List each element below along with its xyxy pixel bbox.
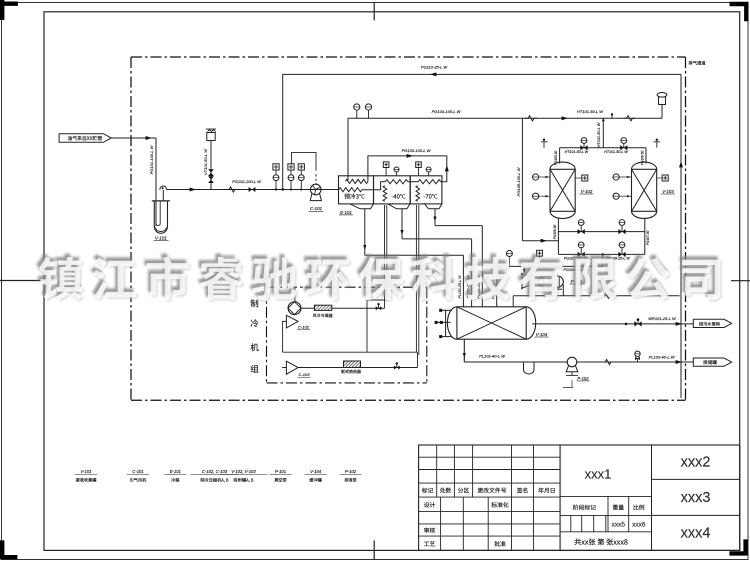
strainer pot: [524, 362, 535, 374]
svg-text:冷: 冷: [250, 318, 259, 330]
pipe PG105 drop from PG104: [521, 118, 523, 240]
instrument PI-1 on suction header: [275, 181, 277, 190]
watermark 镇江市睿驰环保科技有限公司: [38, 244, 750, 310]
svg-text:WR101-25-L W: WR101-25-L W: [648, 316, 677, 321]
corner trim mark top-right: [730, 2, 749, 21]
breaks and tap on PG104: [525, 116, 537, 121]
instrument on V-102 right: [582, 175, 588, 181]
pipe class break: [226, 187, 238, 192]
svg-text:PL102-40-L W: PL102-40-L W: [479, 354, 506, 359]
svg-text:HT101-50-L W: HT101-50-L W: [604, 150, 628, 154]
svg-text:-40℃: -40℃: [391, 191, 405, 200]
instrument PI on E-102: [394, 167, 399, 172]
valve on WR101: [634, 321, 641, 326]
instrument on PL103: [637, 358, 639, 362]
refrigerant middle header: [283, 351, 418, 353]
instrument PI on E-103: [426, 167, 431, 172]
svg-text:C-101: C-101: [310, 206, 323, 211]
pipe PG103 overhead: [368, 156, 447, 182]
V-103 bottom riser: [644, 218, 646, 255]
svg-text:HT101-50-L W: HT101-50-L W: [597, 122, 601, 147]
vessel V-101: [152, 200, 170, 202]
refrigerant bottom header: [298, 367, 417, 369]
svg-text:分区: 分区: [458, 486, 470, 495]
pipe PG110 vent return: [282, 73, 681, 75]
vent stack: [661, 105, 663, 119]
valves on lower regen manifold: [578, 252, 585, 257]
svg-text:V-102: V-102: [581, 189, 593, 194]
svg-text:接污水管网: 接污水管网: [699, 321, 720, 327]
svg-text:V-103: V-103: [662, 189, 674, 194]
svg-text:PG104-100-L W: PG104-100-L W: [432, 109, 462, 114]
centering tick top: [373, 2, 375, 20]
svg-text:V-101: V-101: [155, 235, 167, 240]
P-102 drain dashes: [563, 380, 573, 387]
valve on manifold left: [580, 145, 587, 150]
refrigerant risers to E-102: [384, 205, 386, 308]
svg-text:制冷压缩机A, B: 制冷压缩机A, B: [200, 478, 229, 484]
valves on upper regen manifold: [578, 229, 585, 234]
svg-text:比例: 比例: [633, 503, 645, 512]
signal bypass bracket: [292, 152, 316, 170]
compressor C-102: [288, 302, 301, 315]
V-104 side nozzles: [445, 310, 447, 336]
svg-text:排气通道: 排气通道: [688, 61, 706, 67]
svg-text:工艺: 工艺: [424, 539, 436, 548]
inlet flag 油气来自XX贮管: [59, 134, 111, 143]
svg-text:C-102, C-103: C-102, C-103: [202, 469, 228, 474]
inline valve: [249, 187, 256, 192]
svg-text:共xx张 第 张xxx8: 共xx张 第 张xxx8: [574, 538, 628, 548]
pipe vent line to stack riser: [513, 295, 679, 297]
V-104 bottom drain: [463, 339, 465, 362]
title block left grid: [436, 445, 438, 483]
exchanger E-101 box: [339, 176, 374, 204]
svg-text:凝液收集罐: 凝液收集罐: [76, 478, 98, 484]
instrument PI-3 on suction header: [300, 181, 302, 190]
E-102 refrigerant coil: [383, 186, 387, 202]
svg-text:xxx4: xxx4: [681, 526, 711, 542]
centering tick right: [731, 280, 750, 282]
wire PG110 return drop: [282, 74, 284, 189]
svg-text:V-101: V-101: [80, 469, 91, 474]
E-102 hopper: [388, 204, 410, 209]
instrument TI on E-102: [383, 162, 389, 168]
E-103 hopper: [425, 204, 442, 209]
adsorber vessel V-102: [550, 162, 575, 218]
exchanger E-103 box: [410, 176, 442, 204]
pipe PL103 to storage flag: [577, 361, 694, 363]
svg-text:真空泵: 真空泵: [274, 478, 287, 484]
wire E-101 to E-102: [362, 182, 385, 190]
instrument TI V-103 lower: [613, 193, 619, 199]
wire HT101 drop to manifold: [602, 118, 604, 147]
refrigerant risers to E-103: [415, 205, 417, 352]
svg-text:缓冲罐: 缓冲罐: [309, 478, 322, 484]
E-103 coil: [418, 180, 441, 184]
regeneration manifold upper: [558, 231, 644, 233]
compressor C-103: [286, 361, 298, 374]
drain line from E-101: [364, 209, 366, 255]
centering tick left: [0, 280, 53, 282]
svg-text:标准化: 标准化: [491, 500, 509, 509]
title block middle column: [559, 445, 561, 550]
instrument TI on E-103: [416, 162, 422, 168]
adsorber top manifold: [560, 147, 646, 149]
wire PG109 branch to V-104: [496, 266, 498, 306]
corner trim mark bottom-left: [0, 540, 17, 559]
E-101 coil lower (process): [339, 188, 362, 192]
pump P-102: [567, 357, 577, 367]
wire VT101 branch up: [210, 141, 212, 190]
corner trim mark bottom-right: [729, 539, 747, 555]
wire PG101 riser down to V-101: [155, 138, 157, 226]
svg-text:PG102-100-L W: PG102-100-L W: [232, 179, 262, 184]
svg-text:PG105-100-L W: PG105-100-L W: [516, 166, 521, 196]
svg-text:HT101-50-L W: HT101-50-L W: [565, 150, 589, 154]
refrigeration unit dashed box: [267, 286, 427, 288]
svg-text:VT101-50-L W: VT101-50-L W: [203, 148, 208, 175]
svg-text:板式换热器: 板式换热器: [341, 369, 361, 375]
vacuum pump P-101: [522, 274, 531, 289]
svg-text:PG106-50: PG106-50: [640, 151, 644, 166]
pipe WR101 to sewer flag: [532, 323, 693, 325]
relief valve VT101: [208, 169, 214, 176]
blower C-101: [310, 184, 321, 195]
row 阶段标记/重量/比例: [560, 514, 651, 516]
svg-text:V-104: V-104: [310, 469, 322, 474]
valve on manifold right: [620, 145, 627, 150]
wire PG109 into P-101: [523, 266, 525, 272]
wire C-102 discharge up: [294, 287, 296, 302]
adsorber vessel V-103: [632, 162, 657, 218]
pipe PG109: [497, 265, 603, 267]
E-101 coil upper: [345, 179, 368, 183]
title block right cells: [652, 478, 740, 480]
plate exchanger 板式换热器: [344, 361, 361, 368]
centering tick bottom: [373, 540, 375, 560]
vent stub left of manifold: [543, 142, 545, 148]
svg-text:C-101: C-101: [132, 469, 143, 474]
svg-text:PG110-25-L W: PG110-25-L W: [421, 64, 449, 69]
instrument PI-2 on suction header: [290, 181, 292, 190]
pipe P-101 discharge: [562, 285, 564, 296]
exchanger E-102 box: [374, 176, 411, 204]
svg-text:引气风机: 引气风机: [130, 478, 148, 484]
regeneration manifold lower: [558, 253, 644, 255]
title block outline: [419, 445, 740, 550]
svg-text:风冷冷凝器: 风冷冷凝器: [313, 313, 333, 319]
wire PG110 right drop / vent header: [680, 74, 682, 398]
svg-text:批准: 批准: [494, 539, 506, 548]
air cooled condenser 风冷冷凝器: [315, 305, 332, 310]
svg-text:冷箱: 冷箱: [171, 478, 179, 484]
svg-text:预冷3℃: 预冷3℃: [344, 191, 365, 200]
process boundary dashed box: [131, 56, 686, 58]
svg-text:xxx3: xxx3: [681, 490, 711, 506]
svg-text:xxx5: xxx5: [612, 521, 626, 528]
instrument on P-101 suction: [537, 250, 543, 256]
riser to V-102: [559, 148, 561, 164]
E-101 hopper: [350, 204, 374, 209]
svg-text:吸附罐A, B: 吸附罐A, B: [234, 478, 254, 484]
corner trim mark top-left: [0, 0, 18, 20]
instrument TI V-102 lower: [533, 193, 539, 199]
instrument on V-103 right: [662, 175, 668, 181]
drain line from E-102: [401, 209, 403, 239]
instrument PI near P-101: [506, 251, 512, 257]
wire C-102 to condenser to E-102 coil: [301, 307, 315, 309]
pipe PL102 to P-102: [464, 361, 567, 363]
svg-text:年月日: 年月日: [538, 486, 555, 495]
svg-text:xxx1: xxx1: [585, 467, 612, 482]
main pipe PG102 to C-101: [167, 189, 339, 191]
svg-text:V-104: V-104: [536, 332, 548, 337]
outlet flag 接污水管网: [693, 319, 731, 327]
riser to V-103: [645, 148, 647, 164]
svg-text:油气来自XX贮管: 油气来自XX贮管: [67, 135, 102, 142]
svg-text:xxx2: xxx2: [681, 455, 711, 471]
svg-text:接储罐: 接储罐: [703, 360, 717, 366]
svg-text:E-101: E-101: [170, 469, 181, 474]
drain line from E-103: [434, 209, 436, 226]
row small cells xxx5 xxx6: [560, 531, 651, 533]
svg-text:PG103-100-L W: PG103-100-L W: [402, 148, 432, 153]
svg-text:组: 组: [250, 363, 259, 375]
svg-text:重量: 重量: [612, 503, 624, 512]
svg-text:PL103-40-L W: PL103-40-L W: [649, 355, 676, 360]
instrument TI V-103 upper: [613, 174, 619, 180]
svg-text:审核: 审核: [424, 526, 436, 535]
svg-text:PG101-100-L W: PG101-100-L W: [149, 144, 154, 174]
svg-text:P-101: P-101: [275, 469, 286, 474]
svg-text:E-101: E-101: [340, 210, 352, 215]
svg-text:HT101-50-L W: HT101-50-L W: [577, 109, 604, 114]
outlet flag 接储罐: [693, 358, 731, 366]
svg-text:排液泵: 排液泵: [344, 478, 357, 484]
svg-text:签名: 签名: [517, 486, 529, 495]
svg-text:处数: 处数: [440, 486, 452, 495]
V-102 bottom riser: [557, 218, 559, 255]
wire V-101 vapor hook to main pipe: [160, 186, 167, 201]
svg-text:-70℃: -70℃: [423, 191, 437, 200]
svg-text:C-102: C-102: [298, 325, 310, 330]
pipe PG104 overhead: [348, 117, 662, 119]
svg-text:标记: 标记: [422, 486, 434, 495]
wire inlet flag to riser: [111, 137, 156, 139]
svg-text:阶段标记: 阶段标记: [573, 503, 596, 512]
svg-text:xxx6: xxx6: [632, 521, 646, 528]
svg-text:机: 机: [250, 342, 259, 354]
svg-text:更改文件号: 更改文件号: [478, 486, 507, 495]
valve on bottom header: [394, 366, 400, 370]
E-102 coil: [385, 180, 408, 184]
svg-text:设计: 设计: [424, 500, 436, 509]
instrument TI V-102 upper: [533, 174, 539, 180]
vent stub right of manifold: [656, 142, 658, 148]
valve on refrigerant line: [376, 306, 382, 310]
wire manifold to PG109: [602, 254, 604, 266]
svg-text:P-102: P-102: [345, 469, 357, 474]
E-103 refrigerant coil: [416, 186, 420, 202]
instrument PI pair on PG104: [356, 110, 358, 118]
svg-text:C-103: C-103: [299, 372, 311, 377]
svg-text:PG106-50: PG106-50: [553, 225, 557, 240]
cell xxx1: [560, 495, 651, 497]
buffer vessel V-104: [457, 307, 526, 339]
svg-text:P-102: P-102: [577, 376, 589, 381]
svg-text:V-102, V-103: V-102, V-103: [231, 469, 256, 474]
